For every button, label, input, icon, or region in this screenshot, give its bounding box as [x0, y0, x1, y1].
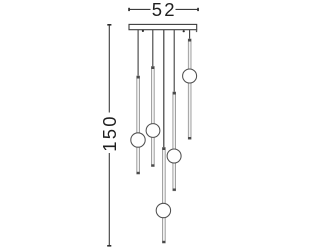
pendant 3 tube [163, 148, 166, 244]
pendant 5 tube [188, 39, 191, 139]
pendant 5 tube bottom cap [188, 137, 191, 139]
pendant 1 tube bottom cap [137, 172, 140, 174]
pendant 4 tube bottom cap [173, 189, 176, 191]
pendant 4 tube top cap [173, 92, 176, 95]
svg-text:52: 52 [152, 0, 177, 20]
pendant 5 tube top cap [188, 39, 191, 42]
pendant 4 tube [173, 92, 176, 191]
pendant 2 cable [152, 30, 154, 67]
pendant 2 tube top cap [151, 67, 154, 70]
pendant 1 tube top cap [137, 76, 140, 79]
pendant 5 cable [189, 30, 191, 39]
height dimension line 150 (top segment) [108, 25, 110, 113]
pendant 2 tube [152, 67, 155, 167]
pendant 4 sphere [167, 149, 181, 163]
height dimension top tick [107, 24, 111, 26]
pendant 1 cable [137, 30, 139, 76]
canopy screw left [142, 30, 144, 32]
ceiling canopy plate [129, 24, 197, 29]
pendant 5 sphere [183, 69, 197, 83]
height dimension line 150 (bottom segment) [108, 153, 110, 246]
pendant 3 cable [163, 30, 165, 148]
pendant 3 tube top cap [162, 148, 165, 151]
canopy screw right [183, 30, 185, 32]
width dimension left tick [128, 8, 130, 11]
height dimension bottom tick [107, 245, 111, 247]
pendant 2 sphere [146, 124, 160, 138]
pendant 1 tube [137, 76, 140, 174]
pendant 3 sphere [156, 203, 170, 217]
pendant 4 cable [173, 30, 175, 92]
canopy right lip [196, 30, 197, 32]
width dimension right tick [197, 8, 199, 11]
width dimension line 52 (left segment) [129, 8, 151, 10]
pendant 2 tube bottom cap [151, 164, 154, 166]
pendant 3 tube bottom cap [162, 241, 165, 243]
svg-text:150: 150 [99, 114, 120, 151]
width dimension line 52 (right segment) [176, 8, 199, 10]
pendant 1 sphere [131, 133, 145, 147]
